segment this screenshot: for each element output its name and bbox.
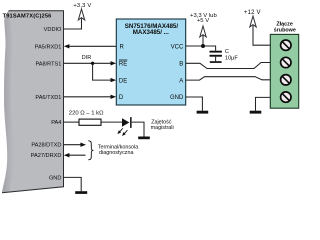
svg-text:DIR: DIR <box>82 55 92 61</box>
svg-text:T91SAM7X(C)256: T91SAM7X(C)256 <box>3 13 52 19</box>
svg-text:GND: GND <box>170 95 184 101</box>
svg-text:B: B <box>179 62 183 68</box>
svg-text:śrubowe: śrubowe <box>274 28 296 34</box>
svg-text:PA6/TXD1: PA6/TXD1 <box>35 95 61 101</box>
svg-text:C: C <box>225 49 229 55</box>
svg-text:MAX3485/ ...: MAX3485/ ... <box>133 29 169 36</box>
svg-text:+5 V: +5 V <box>197 18 209 24</box>
svg-text:R: R <box>120 45 125 51</box>
svg-text:PA27/DRXD: PA27/DRXD <box>31 153 62 159</box>
svg-text:D: D <box>119 95 124 101</box>
svg-text:+12 V: +12 V <box>244 10 261 16</box>
svg-text:PA5/RXD1: PA5/RXD1 <box>35 44 62 50</box>
svg-text:PA28/DTXD: PA28/DTXD <box>31 143 61 149</box>
svg-text:magistrali: magistrali <box>151 125 174 131</box>
svg-text:VDDIO: VDDIO <box>44 27 62 33</box>
svg-text:A: A <box>179 78 183 84</box>
svg-text:10µF: 10µF <box>225 56 238 62</box>
svg-text:VCC: VCC <box>171 45 184 51</box>
svg-text:RE: RE <box>119 62 127 68</box>
svg-text:+3,3 V: +3,3 V <box>73 3 91 9</box>
svg-text:DE: DE <box>119 78 127 84</box>
svg-text:diagnostyczna: diagnostyczna <box>99 150 133 156</box>
svg-text:220 Ω – 1 kΩ: 220 Ω – 1 kΩ <box>69 110 104 116</box>
svg-text:GND: GND <box>49 175 61 181</box>
svg-text:PA4: PA4 <box>51 120 61 126</box>
svg-text:PA8/RTS1: PA8/RTS1 <box>35 61 61 67</box>
